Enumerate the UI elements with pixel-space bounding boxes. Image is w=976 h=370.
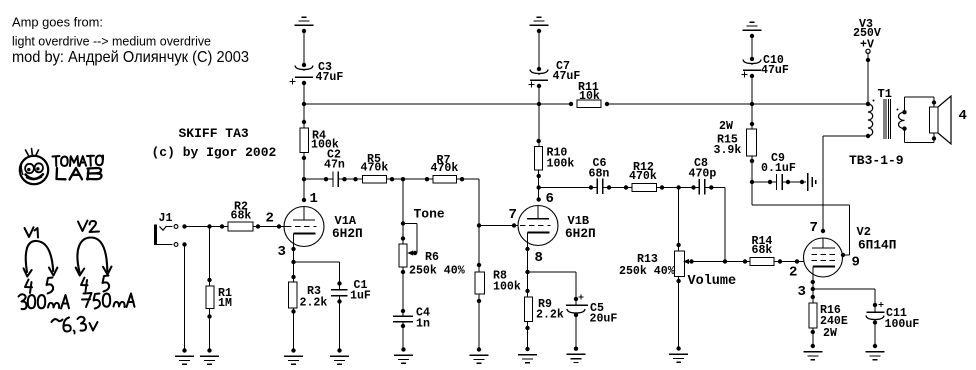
ground (R16) — [803, 344, 822, 360]
svg-text:0.1uF: 0.1uF — [761, 162, 796, 175]
node C9 gnd — [800, 180, 804, 184]
logo tomato leaves — [26, 149, 39, 157]
svg-text:470p: 470p — [689, 168, 717, 181]
wire — [293, 308, 295, 351]
resistor R9 — [525, 289, 564, 330]
node pin3 — [291, 247, 295, 251]
svg-text:20uF: 20uF — [590, 313, 618, 326]
resistor R15 — [714, 120, 757, 163]
svg-text:68n: 68n — [589, 168, 610, 181]
wire — [678, 188, 680, 252]
wire screen feed — [752, 205, 850, 255]
ground (R1) — [200, 348, 219, 364]
label V1B — [568, 214, 590, 228]
triode V1A — [284, 207, 324, 250]
svg-text:1M: 1M — [218, 297, 232, 310]
ground (R9) — [518, 347, 537, 363]
wire — [782, 181, 806, 183]
wire — [293, 249, 295, 282]
svg-text:6Н2П: 6Н2П — [332, 226, 363, 241]
resistor R16 — [809, 295, 848, 340]
resistor R10 — [535, 139, 575, 178]
label V1A — [335, 214, 357, 228]
svg-text:9: 9 — [852, 255, 860, 271]
svg-text:7: 7 — [509, 207, 517, 223]
ground (R8) — [470, 347, 489, 363]
ground (C4) — [394, 347, 413, 363]
wire — [338, 178, 362, 180]
handwritten arrow loop V2 — [76, 238, 112, 276]
capacitor C9 — [761, 152, 796, 190]
pentode V2 — [804, 238, 843, 282]
wire — [538, 31, 540, 69]
transformer T1 core — [884, 99, 891, 139]
wire — [874, 321, 876, 346]
ground (R3) — [284, 348, 303, 364]
pin 1 label — [310, 191, 318, 207]
triode V1B — [518, 206, 558, 250]
svg-text:1uF: 1uF — [350, 290, 371, 303]
pin 8 label — [535, 250, 543, 266]
node pin3 V2 — [811, 280, 815, 284]
pin 3 label — [278, 244, 286, 260]
node volume branch — [676, 185, 680, 189]
svg-text:3.9k: 3.9k — [714, 144, 742, 157]
handwritten 750mA — [82, 293, 135, 309]
svg-text:3: 3 — [278, 244, 286, 260]
logo text LAB — [57, 168, 102, 180]
resistor R2 — [220, 201, 260, 232]
capacitor C3 — [289, 61, 343, 85]
svg-text:3: 3 — [798, 284, 806, 300]
svg-text:7: 7 — [810, 220, 818, 236]
wire — [478, 226, 480, 272]
node rail-T1 — [866, 102, 870, 106]
handwritten 4 (V1 pin) — [25, 280, 32, 294]
wire — [812, 328, 814, 346]
text note line 3 — [12, 49, 249, 66]
svg-text:6П14П: 6П14П — [858, 238, 896, 253]
wire — [527, 249, 529, 297]
wire — [752, 181, 777, 183]
wire — [403, 178, 433, 180]
text note line 1 — [12, 16, 103, 30]
ground (C11) — [866, 344, 885, 360]
resistor R14 — [743, 235, 782, 265]
potentiometer R6 — [399, 236, 465, 277]
node cathode V1B branch — [525, 270, 529, 274]
logo tomato eyes — [25, 163, 43, 173]
svg-text:Amp goes from:: Amp goes from: — [12, 16, 103, 30]
wire — [386, 178, 403, 180]
ground (R13) — [669, 346, 688, 362]
svg-text:470k: 470k — [361, 162, 389, 175]
svg-text:2W: 2W — [823, 327, 837, 340]
pin 2 label (V2) — [789, 265, 797, 281]
svg-text:R6: R6 — [425, 251, 439, 264]
node cathode branch — [291, 260, 295, 264]
svg-text:6: 6 — [546, 191, 554, 207]
wire — [527, 321, 529, 349]
wire — [402, 179, 404, 244]
node C9 branch — [750, 180, 754, 184]
resistor R3 — [288, 275, 327, 314]
ground (J1 sleeve) — [175, 348, 194, 364]
svg-text:100k: 100k — [547, 158, 575, 171]
svg-text:100k: 100k — [493, 281, 521, 294]
ground (top of C7) — [530, 17, 549, 33]
wire — [575, 314, 577, 349]
label 6N2P — [332, 226, 363, 241]
node pin6 — [537, 197, 541, 201]
svg-text:47uF: 47uF — [553, 70, 581, 83]
handwritten ~6,3v — [52, 317, 98, 334]
logo text TOMATO — [53, 156, 104, 167]
wire — [751, 36, 753, 59]
capacitor C8 — [689, 157, 717, 195]
pin 6 label — [546, 191, 554, 207]
svg-text:6Н2П: 6Н2П — [565, 226, 596, 241]
svg-text:47uF: 47uF — [761, 64, 789, 77]
connector J1 — [154, 212, 187, 247]
wire — [657, 187, 700, 189]
wire — [402, 267, 404, 316]
capacitor C5 — [566, 294, 617, 325]
node grid V1A — [277, 224, 281, 228]
svg-text:mod by: Андрей Олиянчук (С) 20: mod by: Андрей Олиянчук (С) 2003 — [12, 49, 249, 66]
wire — [705, 188, 725, 262]
wire — [539, 187, 597, 189]
capacitor C7 — [528, 60, 580, 88]
node cathode V2 branch — [811, 287, 815, 291]
svg-text:(c) by Igor 2002: (c) by Igor 2002 — [152, 145, 277, 160]
capacitor C10 — [741, 54, 789, 78]
node pin1 — [302, 198, 306, 202]
node rail-C10 — [750, 102, 754, 106]
label Tone — [414, 207, 445, 222]
node pin7 V2 — [821, 229, 825, 233]
label 6P14P — [858, 238, 896, 253]
node wiper tap — [401, 221, 405, 225]
text credit Igor — [152, 145, 277, 160]
svg-text:47n: 47n — [324, 159, 345, 172]
node rail-C3 — [302, 102, 306, 106]
resistor R1 — [206, 278, 232, 319]
svg-text:250k 40%: 250k 40% — [619, 265, 675, 278]
svg-text:TB3-1-9: TB3-1-9 — [849, 153, 904, 168]
wire — [303, 83, 305, 104]
wire — [692, 261, 751, 263]
ground (top of C10) — [743, 22, 762, 38]
wire — [538, 104, 540, 147]
pin 7 label (V2) — [810, 220, 818, 236]
label V2 — [857, 225, 871, 239]
svg-text:2: 2 — [789, 265, 797, 281]
wire — [303, 104, 305, 128]
handwritten 300mA — [19, 294, 70, 309]
svg-text:100uF: 100uF — [885, 318, 920, 331]
svg-text:SKIFF TA3: SKIFF TA3 — [179, 126, 249, 141]
svg-text:2: 2 — [266, 211, 274, 227]
logo tomato face — [20, 156, 48, 184]
svg-text:47uF: 47uF — [316, 71, 344, 84]
wire — [303, 31, 305, 65]
label Volume — [688, 274, 737, 289]
resistor R11 — [569, 81, 609, 108]
resistor R12 — [624, 161, 664, 191]
pin 2 label — [266, 211, 274, 227]
svg-text:J1: J1 — [159, 212, 173, 225]
wire — [538, 86, 540, 104]
svg-text:4: 4 — [959, 108, 967, 124]
ground (C5) — [567, 347, 586, 363]
svg-text:2W: 2W — [719, 120, 733, 133]
svg-text:68k: 68k — [231, 210, 252, 223]
svg-text:10k: 10k — [579, 90, 600, 103]
svg-text:1: 1 — [310, 191, 318, 207]
wire — [479, 225, 518, 227]
ground (C1) — [330, 348, 349, 364]
wire — [813, 289, 875, 312]
svg-text:Tone: Tone — [414, 207, 445, 222]
wire — [822, 136, 824, 231]
wire — [774, 261, 804, 263]
wire primary bottom — [823, 135, 868, 137]
handwritten arrow loop V1 — [24, 241, 58, 277]
ground (top of C3) — [295, 17, 314, 33]
label TB3-1-9 — [849, 153, 904, 168]
label T1 — [878, 87, 892, 101]
wire — [304, 178, 333, 180]
wire — [538, 170, 540, 200]
node R8 top — [477, 223, 481, 227]
text title SKIFF TA3 — [179, 126, 249, 141]
svg-text:T1: T1 — [878, 87, 892, 101]
wire — [678, 277, 680, 349]
ground (C9, sideways) — [808, 173, 816, 191]
potentiometer R13 — [619, 243, 694, 283]
wire — [812, 282, 814, 303]
node tone branch — [401, 177, 405, 181]
transformer T1 secondary — [897, 109, 907, 131]
node grid V2 — [795, 259, 799, 263]
wire — [905, 97, 935, 112]
label 4 ohm — [959, 108, 967, 124]
wire — [339, 296, 341, 351]
supply V3 terminal — [853, 18, 881, 62]
capacitor C1 — [331, 279, 371, 304]
svg-text:light overdrive --> medium ove: light overdrive --> medium overdrive — [12, 33, 211, 48]
node rail-C7 — [537, 102, 541, 106]
wire — [751, 76, 753, 104]
logo tomato smile — [26, 174, 44, 179]
node pin9 — [841, 253, 845, 257]
handwritten 4 (V2 pin) — [81, 278, 88, 292]
capacitor C11 — [866, 302, 919, 331]
svg-text:Volume: Volume — [688, 274, 737, 289]
wire — [905, 129, 935, 143]
pin 7 label — [509, 207, 517, 223]
svg-text:470k: 470k — [629, 170, 657, 183]
svg-text:1n: 1n — [416, 318, 430, 331]
svg-text:68k: 68k — [752, 244, 773, 257]
resistor R5 — [353, 153, 394, 183]
node V1A plate branch — [302, 177, 306, 181]
pin 3 label (V2) — [798, 284, 806, 300]
wire — [528, 272, 577, 305]
wire B+ rail right — [607, 103, 868, 105]
capacitor C6 — [589, 157, 612, 194]
label 6N2P (V1B) — [565, 226, 596, 241]
node C8 join — [723, 259, 727, 263]
svg-text:470k: 470k — [431, 162, 459, 175]
wire — [184, 245, 186, 351]
svg-text:2.2k: 2.2k — [300, 297, 328, 310]
svg-text:250k 40%: 250k 40% — [409, 265, 465, 278]
wire — [603, 187, 633, 189]
handwritten 5 (V2 pin) — [103, 276, 110, 292]
node V1B plate branch — [537, 185, 541, 189]
wire — [456, 179, 479, 225]
capacitor C4 — [393, 307, 430, 331]
wire — [209, 309, 211, 351]
wire — [209, 227, 211, 287]
wire wiper link — [403, 224, 417, 254]
speaker — [930, 96, 952, 144]
transformer T1 primary — [866, 100, 875, 139]
wire — [751, 156, 753, 205]
handwritten V2 — [78, 221, 99, 233]
wire — [751, 104, 753, 129]
text note line 2 — [12, 33, 211, 48]
wire — [303, 152, 305, 200]
pin 9 label — [852, 255, 860, 271]
resistor R8 — [475, 263, 521, 303]
node grid V1B — [512, 223, 516, 227]
wire — [478, 294, 480, 349]
node pin8 — [525, 247, 529, 251]
wire B+ rail left — [304, 103, 571, 105]
wire — [402, 322, 404, 350]
handwritten V1 — [25, 227, 39, 237]
resistor R7 — [425, 154, 464, 183]
resistor R4 — [300, 120, 339, 160]
node R1 top — [207, 224, 211, 228]
handwritten 5 (V1 pin) — [47, 278, 54, 294]
capacitor C2 — [324, 149, 347, 187]
svg-text:8: 8 — [535, 250, 543, 266]
wire — [185, 226, 287, 228]
wire — [867, 54, 869, 105]
svg-text:2.2k: 2.2k — [536, 309, 564, 322]
wire — [294, 262, 340, 290]
